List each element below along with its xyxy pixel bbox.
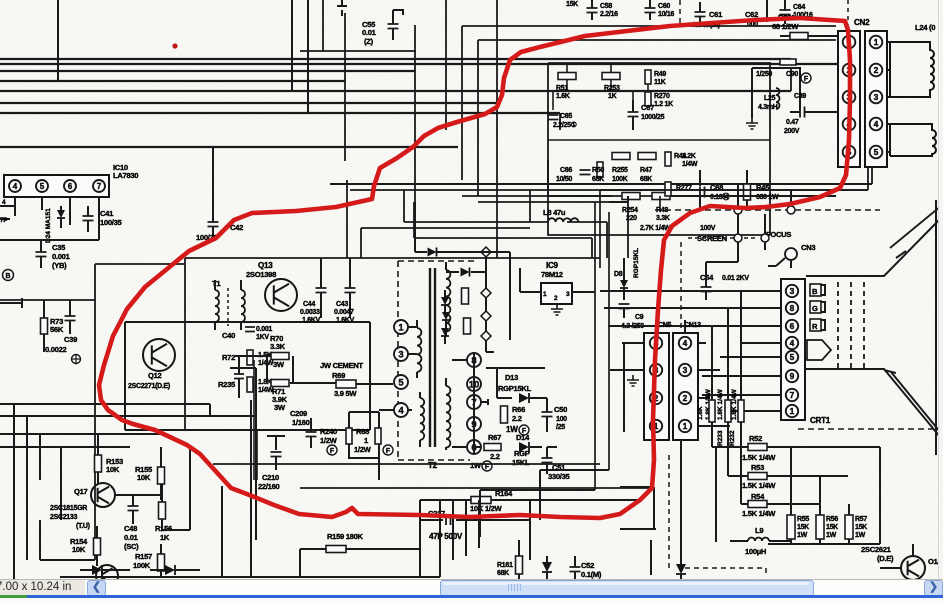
capacitor C55 xyxy=(337,0,347,16)
scrollbar grip xyxy=(508,584,522,591)
wire xyxy=(185,257,600,259)
wire xyxy=(871,61,873,184)
CRT pin 9 xyxy=(786,370,798,382)
wire xyxy=(486,252,510,352)
wire xyxy=(452,360,488,447)
T2 secondary bottom xyxy=(446,386,450,448)
CRT pin 4 xyxy=(786,337,798,349)
wire xyxy=(125,322,370,430)
T2 aux winding xyxy=(420,398,424,440)
wire xyxy=(529,190,531,222)
wire xyxy=(548,139,770,141)
T2 pin 1 xyxy=(394,320,408,334)
CN2 pin 2 right xyxy=(870,64,883,77)
capacitor C41 xyxy=(83,216,94,221)
wire xyxy=(553,63,648,110)
scan noise xyxy=(0,0,1,1)
wire xyxy=(608,212,610,470)
scrollbar track xyxy=(85,580,943,595)
resistor R57 xyxy=(845,515,853,539)
wire xyxy=(291,0,293,91)
wire xyxy=(0,404,255,447)
red dot xyxy=(172,43,177,48)
wire xyxy=(465,447,481,454)
transistor Q12 xyxy=(143,339,175,371)
capacitor C39 xyxy=(65,316,76,321)
resistor R73 xyxy=(41,318,48,334)
capacitor C43 xyxy=(345,288,356,293)
resistor R51 xyxy=(558,73,576,80)
CN2 pin 4 left xyxy=(843,118,856,131)
capacitor C51 xyxy=(542,458,553,463)
wire xyxy=(0,63,838,65)
wire xyxy=(559,113,561,130)
wire xyxy=(0,102,497,104)
taskbar blue strip xyxy=(27,595,943,598)
wire xyxy=(659,196,661,210)
CN5 pin 2 xyxy=(650,392,662,404)
CN5 pin 3 xyxy=(650,364,662,376)
CRT pin 1 xyxy=(786,405,798,417)
wire xyxy=(610,343,730,432)
wire xyxy=(594,202,596,490)
IC10 pin 6 xyxy=(64,180,76,192)
CRT dashed verticals xyxy=(837,282,839,368)
capacitor C67 xyxy=(628,112,639,117)
capacitor C44 xyxy=(316,288,327,293)
wire xyxy=(0,298,22,308)
diode ladder xyxy=(428,248,437,257)
T2 pin 8 xyxy=(467,353,481,367)
circled F xyxy=(801,73,811,83)
capacitor C50 xyxy=(542,412,553,417)
status text xyxy=(0,581,116,595)
wire xyxy=(300,0,416,51)
capacitor C42 xyxy=(208,222,219,227)
wire xyxy=(600,190,868,268)
IC10 pin 7 xyxy=(93,180,105,192)
wire xyxy=(847,0,849,28)
wire xyxy=(478,40,836,196)
capacitor C52 xyxy=(570,567,581,572)
resistor R156 xyxy=(159,502,166,519)
wire xyxy=(486,368,545,398)
wire xyxy=(300,487,655,489)
diamond node xyxy=(481,288,491,298)
resistor R50 xyxy=(597,162,603,177)
resistor R55 xyxy=(787,515,795,539)
ground xyxy=(746,118,758,129)
inductor L24 winding bottom xyxy=(887,124,890,152)
wire xyxy=(600,291,781,411)
node FOCUS xyxy=(761,234,769,242)
CRT pin 3 xyxy=(786,285,798,297)
resistor R253 xyxy=(602,73,620,80)
wire xyxy=(480,470,609,537)
dashed bottom right xyxy=(798,428,940,430)
circled F xyxy=(383,445,393,455)
wire xyxy=(867,167,869,190)
wire xyxy=(0,90,791,92)
diode xyxy=(542,562,552,572)
diamond node xyxy=(481,311,491,321)
node SCREEN xyxy=(734,234,742,242)
wire xyxy=(738,214,765,262)
wire xyxy=(548,63,770,235)
wire xyxy=(57,0,59,81)
wire xyxy=(40,484,162,560)
connector CRT pins xyxy=(781,279,805,420)
T2 pin 6 xyxy=(467,440,481,454)
CN2 pin 4 right xyxy=(870,118,883,131)
wire xyxy=(679,0,681,26)
status bar xyxy=(0,579,943,596)
capacitor xyxy=(234,374,244,379)
wire xyxy=(0,80,345,82)
diode xyxy=(92,565,102,575)
capacitor C65 xyxy=(548,115,559,120)
CN13 pin 4 xyxy=(679,337,691,349)
wire xyxy=(668,455,670,572)
capacitor C58 xyxy=(587,8,598,13)
resistor R153 xyxy=(95,455,102,472)
wire xyxy=(0,146,458,148)
IC10 pin 4 xyxy=(9,180,21,192)
CRT pin 8 xyxy=(786,302,798,314)
wire xyxy=(0,239,99,241)
CN13 pin 2 xyxy=(679,392,691,404)
wire xyxy=(344,13,346,161)
wire xyxy=(350,189,868,191)
wire xyxy=(627,202,629,258)
T2 pin 3 xyxy=(394,347,408,361)
CN5 pin 1 xyxy=(650,420,662,432)
diode xyxy=(165,565,175,575)
capacitor C9 xyxy=(619,304,630,309)
node on dashed xyxy=(787,206,795,214)
connector CN2 right column xyxy=(865,31,887,167)
CN2 pin 1 right xyxy=(870,36,883,49)
wire xyxy=(403,190,405,222)
wire xyxy=(715,447,717,542)
transistor Q18 partial xyxy=(96,565,118,587)
connector CN5 xyxy=(644,333,669,440)
wire xyxy=(609,196,628,202)
wire xyxy=(14,404,61,580)
wire xyxy=(0,112,560,114)
CN2 pin 3 left xyxy=(843,91,856,104)
inductor L24 winding top xyxy=(887,42,890,97)
wire xyxy=(712,291,741,504)
resistor R71 xyxy=(271,380,289,387)
CN13 pin 1 xyxy=(679,420,691,432)
wire xyxy=(60,549,440,577)
CN2 pin 2 left xyxy=(843,64,856,77)
CRT funnel top xyxy=(806,218,941,276)
connector CN13 xyxy=(673,333,698,440)
CN2 pin 1 left xyxy=(843,36,856,49)
capacitor C35 xyxy=(36,252,47,257)
wire xyxy=(445,0,447,130)
T2 core xyxy=(430,268,435,447)
wire xyxy=(656,320,685,333)
red marker loop xyxy=(99,18,850,518)
wire xyxy=(440,500,479,577)
capacitor C48 xyxy=(128,506,139,511)
wire xyxy=(478,201,628,203)
wire xyxy=(462,195,660,197)
T2 pin 10 xyxy=(467,377,481,391)
wire xyxy=(0,58,791,60)
wire xyxy=(253,360,255,480)
T2 pin 5 xyxy=(394,375,408,389)
resistor R157 xyxy=(158,554,165,571)
wire xyxy=(680,438,682,572)
wire xyxy=(213,463,600,465)
wire xyxy=(349,410,399,480)
T2 pin 4 xyxy=(394,403,408,417)
wire xyxy=(356,383,393,385)
CN2 pin 5 right xyxy=(870,146,883,159)
resistor R48 xyxy=(652,193,670,200)
node on dashed xyxy=(734,206,742,214)
CRT funnel right xyxy=(935,200,937,455)
wire xyxy=(184,258,186,430)
arrow node xyxy=(807,340,831,360)
dashed screen focus row xyxy=(688,237,758,239)
node B xyxy=(3,270,14,281)
label B xyxy=(810,284,821,296)
wire xyxy=(620,487,656,529)
wire xyxy=(330,183,872,185)
resistor R255 xyxy=(612,153,630,160)
dashed box right xyxy=(655,209,880,211)
wire xyxy=(680,242,682,330)
label R xyxy=(810,319,821,331)
ground xyxy=(627,375,639,386)
T2 pin 7 xyxy=(467,395,481,409)
connector IC10 pins xyxy=(4,175,109,197)
transistor Q17 xyxy=(91,483,115,507)
resistor R49 xyxy=(645,70,651,84)
taskbar green fragment xyxy=(0,595,27,598)
wire xyxy=(414,25,416,203)
transistor Q13 xyxy=(265,279,297,311)
T2 secondary top xyxy=(446,270,450,332)
wire xyxy=(680,440,682,544)
capacitor C210 xyxy=(267,436,285,450)
CRT pin 7 xyxy=(786,389,798,401)
scrollbar right button xyxy=(924,580,943,596)
connector CN2 left column xyxy=(838,31,860,167)
capacitor C64 xyxy=(780,10,791,15)
wire xyxy=(361,228,530,258)
diamond node xyxy=(481,331,491,341)
capacitor C61 xyxy=(695,12,706,17)
wire xyxy=(230,356,338,480)
wire xyxy=(0,264,95,560)
wire xyxy=(346,180,348,258)
wire xyxy=(461,26,463,180)
wire xyxy=(768,447,880,544)
wire xyxy=(496,0,498,258)
resistor R155 xyxy=(158,467,165,484)
diamond node xyxy=(481,247,491,257)
wire xyxy=(307,0,309,113)
wire xyxy=(473,353,475,447)
CRT funnel bottom xyxy=(806,369,941,438)
T2 primary winding xyxy=(417,328,421,372)
CN13 pin 3 xyxy=(679,364,691,376)
IC10 pin 5 xyxy=(36,180,48,192)
label G xyxy=(810,301,821,313)
wire xyxy=(190,400,256,577)
transformer T2 dashed box xyxy=(398,261,476,460)
circled F xyxy=(327,445,337,455)
resistor R45 xyxy=(744,184,751,200)
wire xyxy=(548,160,836,208)
CRT pin 6 xyxy=(786,320,798,332)
scrollbar thumb xyxy=(440,580,814,596)
T2 pin 9 xyxy=(467,417,481,431)
CN5 pin 4 xyxy=(650,337,662,349)
resistor R270 xyxy=(645,92,651,106)
wire xyxy=(95,263,185,265)
wire xyxy=(414,238,592,258)
diode xyxy=(676,564,686,574)
scrollbar thumb highlight xyxy=(443,582,809,585)
resistor R56 xyxy=(816,515,824,539)
wire xyxy=(414,202,416,252)
resistor R44 xyxy=(665,152,671,166)
wire xyxy=(15,197,99,240)
wire xyxy=(404,222,607,258)
wire xyxy=(790,68,792,91)
capacitor C68 xyxy=(700,187,705,198)
CN2 pin 5 left xyxy=(843,146,856,159)
dashed bottom center xyxy=(685,568,766,576)
ground symbol circled xyxy=(72,355,81,364)
connector CN3 xyxy=(785,248,797,260)
resistor R254 xyxy=(622,193,640,200)
wire xyxy=(462,25,836,27)
right edge strip xyxy=(938,0,943,579)
wire xyxy=(0,206,15,219)
wire xyxy=(650,540,652,575)
wire xyxy=(520,268,595,292)
CRT funnel inner tick xyxy=(884,251,941,433)
CN2 pin 3 right xyxy=(870,91,883,104)
wire xyxy=(738,184,791,206)
capacitor C60 xyxy=(645,8,656,13)
ground xyxy=(551,304,563,315)
scrollbar left button xyxy=(87,580,106,596)
resistor R277 xyxy=(665,182,671,196)
CRT funnel inner top xyxy=(890,206,941,248)
wire xyxy=(0,70,415,72)
resistor R47 xyxy=(638,153,656,160)
resistor R66 xyxy=(501,406,508,423)
wire xyxy=(413,202,415,238)
CRT pin 5 xyxy=(786,351,798,363)
rectifier stack resistors xyxy=(462,288,469,304)
